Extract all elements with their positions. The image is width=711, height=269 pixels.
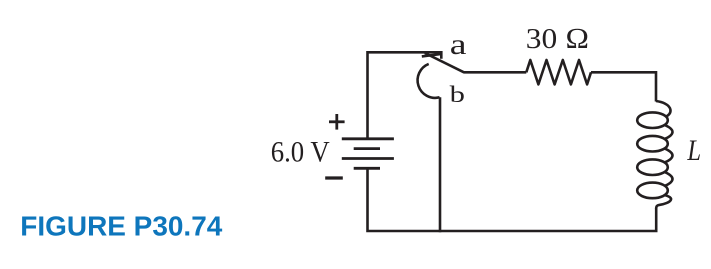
svg-text:6.0 V: 6.0 V	[271, 136, 330, 169]
label 6.0 V	[271, 136, 330, 169]
wire from blade to resistor	[464, 71, 527, 74]
svg-text:a: a	[450, 28, 467, 61]
label L	[687, 134, 702, 167]
wire from resistor to inductor top	[591, 72, 656, 101]
wire switch contact b down to bottom wire	[439, 97, 442, 232]
label b	[450, 82, 465, 108]
switch SW contact a tick	[422, 54, 441, 56]
label 30 ohm	[526, 23, 590, 55]
battery minus sign	[325, 176, 343, 179]
resistor R 30ohm	[526, 60, 591, 84]
switch SW throw arc to contact b	[418, 64, 440, 98]
switch SW blade	[425, 53, 464, 72]
wire top from battery to switch contact a	[368, 52, 442, 139]
svg-text:30 Ω: 30 Ω	[526, 23, 590, 55]
battery B 6.0V plates	[342, 139, 394, 169]
caption FIGURE P30.74	[20, 210, 223, 241]
svg-text:FIGURE P30.74: FIGURE P30.74	[20, 210, 223, 241]
battery plus sign	[329, 114, 345, 130]
label a	[450, 28, 467, 61]
wire from inductor bottom along bottom to battery minus	[368, 168, 657, 231]
inductor L coil	[637, 101, 672, 209]
svg-text:b: b	[450, 82, 465, 108]
svg-text:L: L	[687, 134, 702, 167]
